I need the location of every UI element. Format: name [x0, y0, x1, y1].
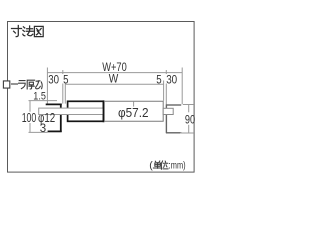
100 dimension line vertical (split around text)	[29, 101, 31, 112]
right channel web	[165, 104, 167, 133]
left channel bottom flange	[48, 130, 62, 132]
extension line roller left end	[64, 81, 66, 104]
svg-text:3: 3	[40, 123, 46, 135]
svg-text:W: W	[109, 71, 119, 85]
90 dim top extension	[183, 104, 193, 106]
寸	[12, 26, 22, 37]
left channel frame (thick) top flange	[46, 103, 62, 105]
100 bottom extension line	[29, 131, 48, 133]
み	[36, 81, 43, 89]
svg-text:φ57.2: φ57.2	[118, 106, 149, 120]
svg-text:30: 30	[48, 73, 59, 87]
label 5 left	[62, 74, 70, 84]
phi57.2 leader tick	[133, 101, 135, 106]
right channel bottom flange	[166, 132, 181, 134]
ラ	[19, 81, 26, 89]
roller left section (thick outline)	[68, 101, 104, 121]
extension line left frame outer	[46, 68, 48, 104]
figure border frame	[8, 22, 195, 173]
ー	[12, 83, 18, 85]
shaft left (phi 12)	[39, 108, 104, 114]
extension line right frame inner	[165, 70, 167, 104]
90 dim bottom extension	[180, 132, 193, 134]
法	[23, 26, 33, 36]
ロ	[3, 81, 9, 88]
title 寸法図 (drawn glyphs)	[12, 26, 44, 37]
厚	[27, 80, 34, 89]
svg-text:mm): mm)	[171, 160, 186, 172]
left channel web	[60, 104, 62, 132]
label 30 right	[165, 74, 178, 84]
extension line left frame inner	[62, 70, 64, 104]
svg-text:90: 90	[185, 112, 195, 126]
位	[161, 161, 168, 169]
W dimension line	[65, 83, 164, 85]
right channel frame top flange	[166, 104, 181, 106]
図	[34, 26, 43, 36]
svg-text:30: 30	[166, 73, 177, 87]
svg-text:5: 5	[156, 73, 162, 87]
label ローラ厚み (drawn glyphs)	[3, 80, 42, 89]
svg-text:5: 5	[63, 73, 69, 87]
W+70 dimension line	[47, 72, 182, 74]
svg-text:100: 100	[22, 111, 37, 125]
単	[153, 161, 161, 168]
roller right section (thin outline)	[104, 101, 163, 122]
extension line roller right end	[163, 81, 165, 101]
roller break end cap	[103, 100, 105, 122]
shaft right stub	[163, 108, 173, 114]
svg-text:φ12: φ12	[38, 111, 55, 125]
roller top extension line (for 1.5)	[29, 100, 58, 102]
90 dim line vertical (split)	[188, 105, 190, 113]
extension line right frame outer	[181, 68, 183, 105]
svg-text:(: (	[149, 160, 153, 172]
